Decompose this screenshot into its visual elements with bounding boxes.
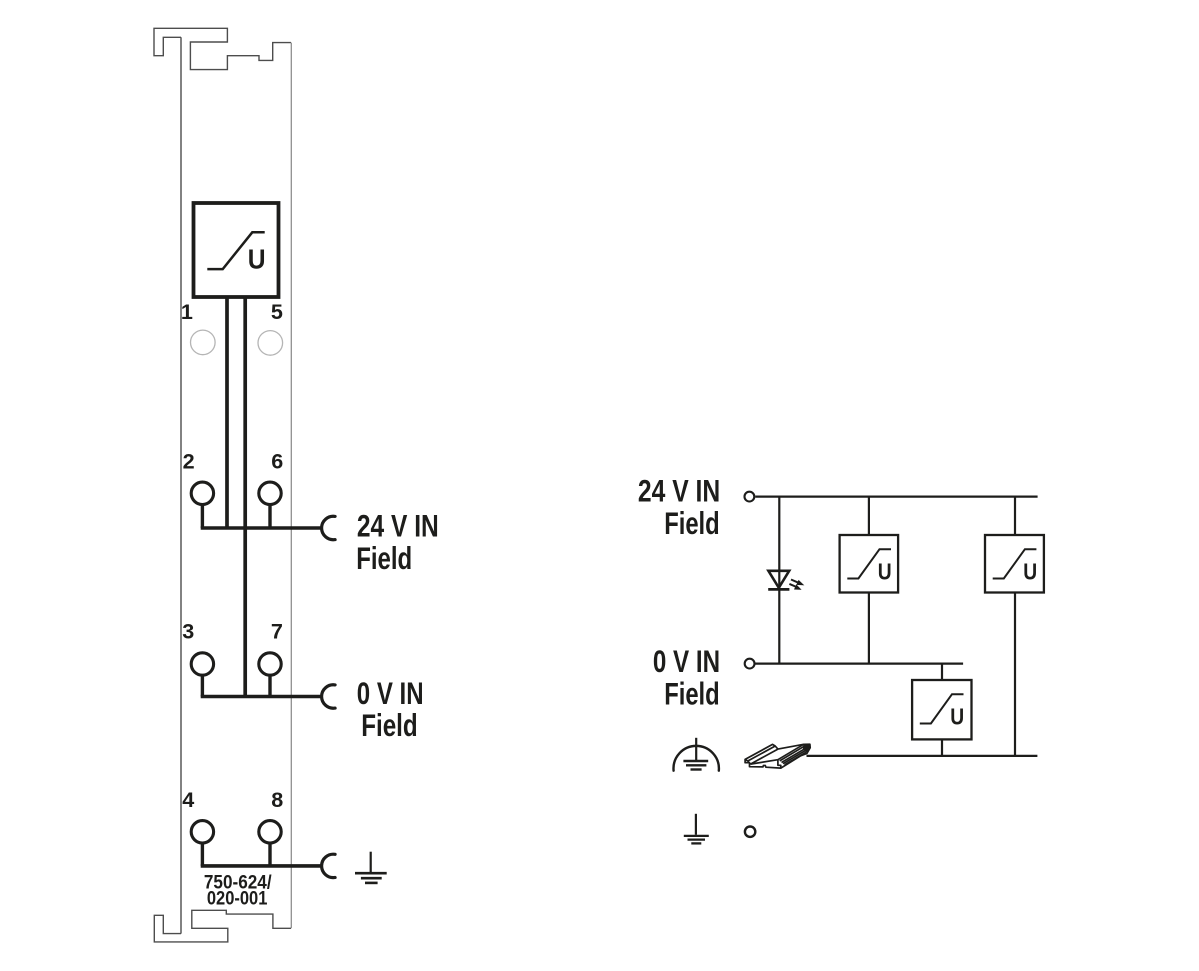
pin 7 clamp circle: [259, 653, 281, 675]
DIN carrier rail symbol: [745, 744, 810, 768]
module outline bottom contour: [154, 910, 291, 942]
svg-text:U: U: [248, 244, 266, 275]
pin 5 pale circle: [258, 331, 283, 356]
pin 8 clamp circle: [259, 821, 281, 843]
svg-text:0 V IN: 0 V IN: [357, 675, 424, 711]
pin 4 clamp circle: [191, 821, 213, 843]
bottom terminal circle: [745, 827, 755, 837]
pin 8 stub wire: [268, 843, 271, 866]
pin 4 stub wire: [201, 843, 204, 866]
pin 7 stub wire: [268, 675, 271, 696]
svg-text:7: 7: [271, 619, 283, 644]
svg-text:5: 5: [271, 299, 283, 324]
svg-text:24 V IN: 24 V IN: [357, 508, 439, 544]
noiseless earth symbol (dome): [673, 738, 718, 771]
earth symbol (module): [355, 852, 387, 883]
filter U3 slew symbol: [993, 549, 1037, 578]
wire from U1 to 24V bus: [225, 297, 229, 527]
0V field bus wire: [201, 695, 321, 699]
svg-text:4: 4: [182, 787, 194, 812]
pin 2 stub wire: [201, 505, 204, 529]
24V field bus wire: [201, 526, 321, 530]
filter block U4 branch bottom: [941, 739, 943, 756]
filter U1 slew symbol: [207, 232, 264, 269]
24V bus clamp arc: [322, 516, 336, 539]
filter block U4 branch top: [941, 664, 943, 680]
svg-text:Field: Field: [664, 676, 720, 712]
0V rail wire: [755, 662, 964, 664]
filter block U3: [985, 535, 1044, 593]
pin 6 stub wire: [268, 505, 271, 529]
svg-text:Field: Field: [361, 707, 418, 743]
pin 6 clamp circle: [259, 482, 281, 504]
wire from U1 to 0V bus: [243, 297, 247, 695]
pin 2 clamp circle: [191, 482, 213, 504]
filter block U3 branch bottom: [1014, 593, 1016, 756]
svg-text:2: 2: [183, 449, 195, 474]
svg-text:U: U: [878, 559, 892, 585]
svg-text:020-001: 020-001: [207, 887, 268, 909]
svg-text:0 V IN: 0 V IN: [653, 643, 720, 679]
earth rail wire: [807, 755, 1038, 757]
module outline top contour: [154, 28, 291, 69]
LED branch wire: [778, 497, 780, 664]
pin 3 clamp circle: [191, 653, 213, 675]
filter U4 slew symbol: [920, 694, 964, 723]
0V terminal circle: [745, 659, 755, 669]
filter block U1 on module: [194, 203, 279, 297]
functional earth symbol (bottom): [684, 814, 709, 844]
svg-text:1: 1: [181, 299, 193, 324]
filter block U2: [840, 535, 899, 593]
pin 1 pale circle: [191, 330, 216, 355]
earth bus wire: [201, 864, 321, 868]
LED D1: [768, 571, 803, 590]
0V bus clamp arc: [322, 685, 336, 708]
svg-text:U: U: [1023, 559, 1037, 585]
24V terminal circle: [745, 492, 755, 502]
filter U2 slew symbol: [847, 549, 891, 578]
24V rail wire: [755, 496, 1037, 498]
svg-text:8: 8: [271, 787, 283, 812]
earth bus clamp arc: [322, 854, 336, 877]
svg-text:6: 6: [271, 449, 283, 474]
filter block U2 branch bottom: [868, 593, 870, 664]
module outline left edge: [180, 37, 182, 933]
svg-text:3: 3: [182, 619, 194, 644]
filter block U3 branch top: [1014, 497, 1016, 535]
svg-text:U: U: [950, 704, 964, 730]
svg-text:Field: Field: [664, 505, 720, 541]
pin 3 stub wire: [201, 675, 204, 696]
svg-text:24 V IN: 24 V IN: [638, 473, 720, 509]
filter block U4: [912, 680, 971, 739]
filter block U2 branch top: [868, 497, 870, 535]
svg-text:Field: Field: [356, 540, 412, 576]
module outline right edge: [290, 43, 292, 929]
